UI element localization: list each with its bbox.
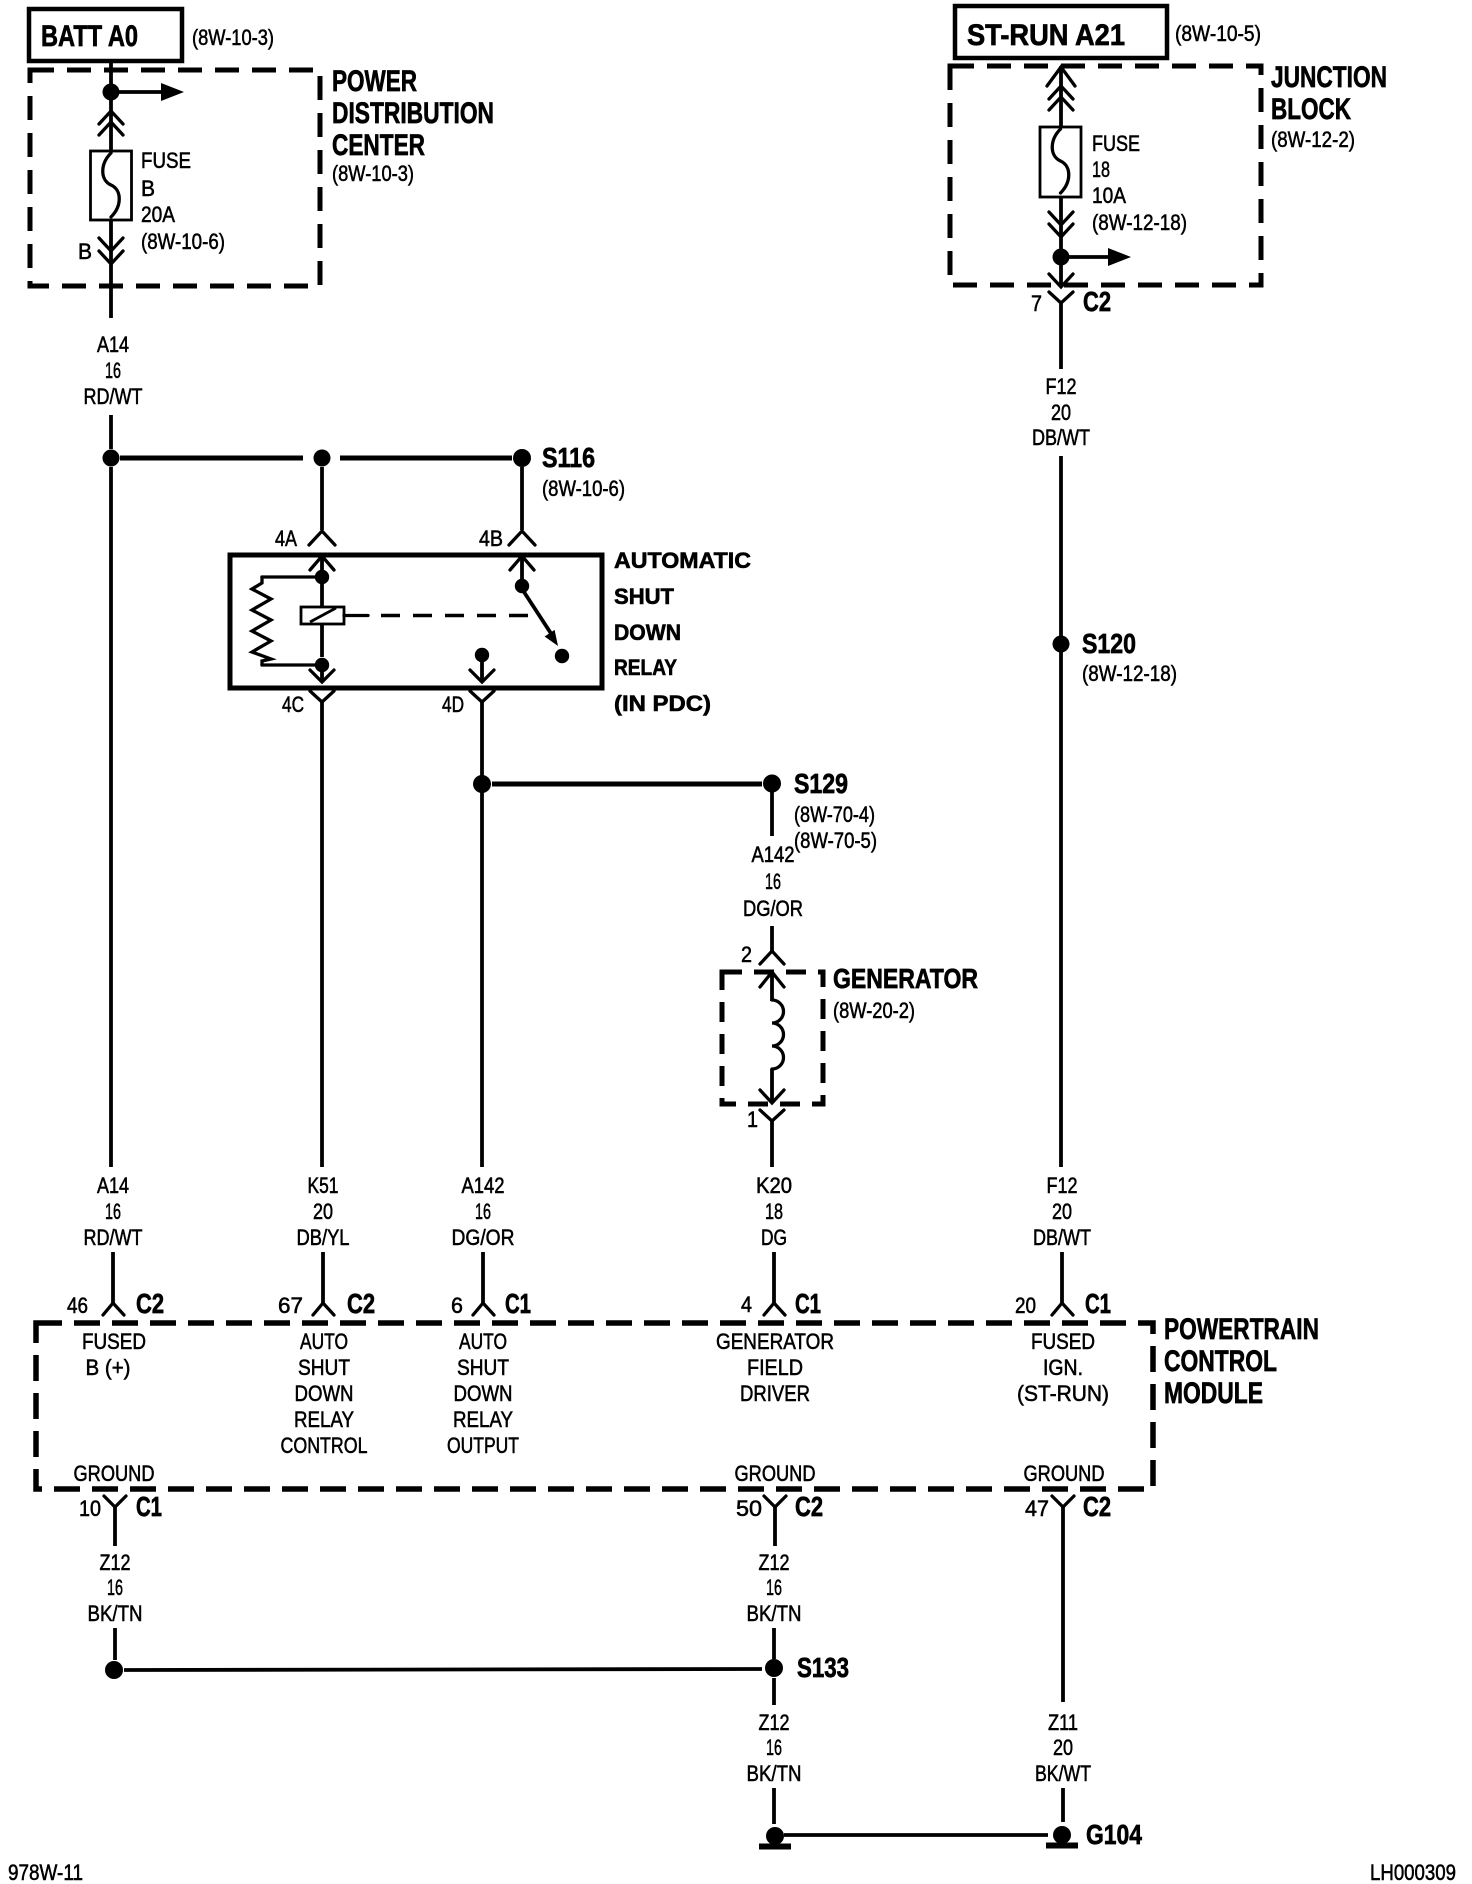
- wire field coil to pin 1: [770, 1069, 774, 1103]
- wire label Z12 16 BK/TN (below S133): [747, 1710, 802, 1786]
- svg-text:DG/OR: DG/OR: [743, 896, 803, 921]
- svg-text:C2: C2: [1083, 286, 1111, 317]
- svg-text:46: 46: [67, 1293, 88, 1318]
- wire label F12 20 DB/WT (upper): [1032, 374, 1090, 450]
- junction dot coil bottom: [315, 658, 329, 672]
- svg-text:SHUT: SHUT: [614, 584, 675, 609]
- wire to resistor top: [262, 575, 322, 578]
- arrow to other circuits: [1061, 248, 1131, 266]
- svg-text:(8W-10-3): (8W-10-3): [192, 25, 274, 50]
- svg-text:CONTROL: CONTROL: [1164, 1345, 1277, 1378]
- wire label F12 20 DB/WT (lower): [1033, 1173, 1091, 1250]
- connector fork pin 6: [473, 1303, 494, 1315]
- svg-text:GROUND: GROUND: [74, 1461, 155, 1486]
- wire to generator pin 2: [770, 926, 774, 951]
- svg-text:BK/TN: BK/TN: [747, 1761, 802, 1786]
- wire S116 bus right segment: [340, 456, 512, 461]
- svg-text:DISTRIBUTION: DISTRIBUTION: [332, 97, 494, 130]
- svg-text:(8W-10-6): (8W-10-6): [542, 476, 625, 501]
- connector fork pin 4: [764, 1303, 785, 1315]
- wire label Z11 20 BK/WT: [1035, 1710, 1091, 1786]
- wire fuse to node: [1059, 197, 1063, 250]
- svg-text:CONTROL: CONTROL: [281, 1433, 368, 1458]
- junction dot middle (to 4A): [314, 450, 331, 467]
- label S120 (8W-12-18): [1082, 628, 1177, 686]
- label POWERTRAIN CONTROL MODULE: [1164, 1313, 1319, 1410]
- fuse B 20A: [91, 151, 132, 220]
- wire pin 47 down long: [1061, 1523, 1065, 1702]
- connector chevron pin 4C inner: [310, 670, 334, 682]
- svg-text:C2: C2: [795, 1491, 823, 1522]
- wire down to G104: [1061, 1788, 1065, 1822]
- ground bar G104: [1046, 1843, 1078, 1849]
- pin function label FUSED B (+): [82, 1329, 146, 1380]
- svg-text:BATT A0: BATT A0: [41, 20, 138, 53]
- svg-text:16: 16: [105, 1199, 121, 1224]
- connector chevrons above fuse: [99, 111, 123, 135]
- svg-text:CENTER: CENTER: [332, 129, 425, 162]
- svg-text:(8W-70-5): (8W-70-5): [794, 828, 877, 853]
- connector fork pin 20: [1052, 1303, 1073, 1315]
- wire label A142 16 DG/OR (lower): [452, 1173, 515, 1250]
- wire col1 into PCM pin 46: [111, 1252, 115, 1304]
- label GENERATOR (8W-20-2): [833, 963, 978, 1023]
- svg-text:FUSED: FUSED: [82, 1329, 146, 1354]
- svg-text:(8W-12-18): (8W-12-18): [1092, 210, 1187, 235]
- svg-text:20: 20: [1052, 1199, 1072, 1224]
- junction dot left of S133 bus: [105, 1661, 123, 1679]
- svg-text:K51: K51: [308, 1173, 339, 1198]
- connector chevron pin 1 inner: [760, 1090, 784, 1103]
- svg-text:ST-RUN A21: ST-RUN A21: [967, 19, 1125, 52]
- svg-text:DB/WT: DB/WT: [1033, 1225, 1091, 1250]
- svg-text:DG/OR: DG/OR: [452, 1225, 515, 1250]
- svg-text:4: 4: [741, 1292, 752, 1317]
- wire S129 bus: [492, 782, 762, 787]
- svg-text:SHUT: SHUT: [298, 1355, 350, 1380]
- svg-text:7: 7: [1031, 291, 1042, 316]
- wire col3 into PCM pin 6: [481, 1252, 485, 1304]
- svg-text:(8W-12-18): (8W-12-18): [1082, 661, 1177, 686]
- node ST-RUN A21 (source box): [955, 6, 1167, 58]
- svg-text:16: 16: [107, 1575, 123, 1600]
- node BATT A0 (source box): [29, 9, 182, 61]
- generator dashed box: [722, 972, 823, 1104]
- svg-text:20: 20: [1051, 400, 1071, 425]
- wire pin2 to field coil: [770, 972, 774, 1001]
- wire col2 into PCM pin 67: [321, 1252, 325, 1304]
- svg-text:C2: C2: [347, 1288, 375, 1319]
- svg-text:DOWN: DOWN: [295, 1381, 354, 1406]
- fuse 18 10A: [1040, 127, 1081, 197]
- wire label K20 18 DG: [756, 1173, 792, 1250]
- svg-text:DOWN: DOWN: [614, 620, 681, 645]
- svg-text:Z12: Z12: [100, 1550, 131, 1575]
- ground G104 dot: [1053, 1826, 1071, 1844]
- svg-text:(IN PDC): (IN PDC): [614, 691, 711, 716]
- svg-text:(8W-70-4): (8W-70-4): [794, 802, 875, 827]
- svg-text:GROUND: GROUND: [735, 1461, 816, 1486]
- svg-text:(8W-10-5): (8W-10-5): [1175, 21, 1261, 46]
- wire 4B to switch pivot: [520, 556, 524, 580]
- svg-text:A14: A14: [97, 1173, 129, 1198]
- connector chevron pin 7 inner: [1049, 274, 1073, 287]
- connector Y pin 50: [764, 1496, 786, 1523]
- svg-text:C2: C2: [136, 1288, 164, 1319]
- switch pivot dot: [515, 579, 529, 593]
- svg-text:10A: 10A: [1092, 183, 1126, 208]
- svg-text:20A: 20A: [141, 202, 175, 227]
- wire 4D contact to pin: [480, 660, 484, 682]
- svg-text:DG: DG: [761, 1225, 787, 1250]
- wire ground bus: [784, 1833, 1048, 1837]
- connector Y pin 7 outer: [1049, 292, 1073, 317]
- svg-text:DB/YL: DB/YL: [297, 1225, 350, 1250]
- svg-text:LH000309: LH000309: [1370, 1860, 1456, 1884]
- wire label K51 20 DB/YL: [297, 1173, 350, 1250]
- svg-text:(8W-10-3): (8W-10-3): [332, 161, 414, 186]
- wire F12 long vertical (col 5): [1059, 652, 1063, 1167]
- svg-text:978W-11: 978W-11: [8, 1860, 83, 1884]
- svg-text:18: 18: [1092, 157, 1110, 182]
- connector fork pin 67: [313, 1303, 334, 1315]
- connector Y pin 4D outer: [470, 691, 494, 713]
- svg-text:OUTPUT: OUTPUT: [447, 1433, 519, 1458]
- splice S116 dot: [513, 449, 531, 467]
- wire S129 to generator: [770, 792, 774, 836]
- wire S116 to relay pin 4A: [320, 467, 324, 530]
- svg-text:FUSE: FUSE: [1092, 131, 1140, 156]
- svg-text:S116: S116: [542, 442, 595, 473]
- svg-text:67: 67: [278, 1293, 303, 1318]
- svg-text:C2: C2: [1083, 1491, 1111, 1522]
- svg-text:Z11: Z11: [1048, 1710, 1078, 1735]
- power distribution center dashed box: [30, 70, 320, 286]
- connector chevron pin 2 inner: [760, 972, 784, 987]
- wire label Z12 16 BK/TN (pin 50): [747, 1550, 802, 1626]
- connector Y pin 10: [104, 1496, 126, 1523]
- connector Y pin 47: [1052, 1496, 1074, 1523]
- wire into S133: [772, 1628, 776, 1659]
- svg-text:16: 16: [766, 1735, 782, 1760]
- svg-text:C1: C1: [136, 1491, 162, 1522]
- svg-text:K20: K20: [756, 1173, 792, 1198]
- arrow to other circuits: [111, 83, 184, 101]
- node junction dot in PDC: [103, 84, 120, 101]
- wire BATT A0 to node: [109, 61, 113, 84]
- wire K20 vertical: [770, 1134, 774, 1167]
- connector Y pin 1 outer: [760, 1110, 784, 1134]
- svg-text:C1: C1: [505, 1288, 531, 1319]
- svg-text:IGN.: IGN.: [1043, 1355, 1083, 1380]
- splice junction dot left: [103, 450, 120, 467]
- label AUTOMATIC SHUT DOWN RELAY (IN PDC): [614, 548, 751, 716]
- svg-text:POWERTRAIN: POWERTRAIN: [1164, 1313, 1319, 1346]
- svg-text:10: 10: [79, 1496, 101, 1521]
- wire pin 50 down: [773, 1523, 777, 1546]
- svg-text:16: 16: [105, 358, 121, 383]
- label JUNCTION BLOCK (8W-12-2): [1271, 61, 1387, 152]
- svg-text:GENERATOR: GENERATOR: [833, 963, 978, 994]
- pin function label GENERATOR FIELD DRIVER: [716, 1329, 834, 1406]
- svg-text:RELAY: RELAY: [453, 1407, 513, 1432]
- wire A142 long vertical (col 3): [480, 713, 484, 1167]
- wire S133 to lower label: [772, 1678, 776, 1705]
- svg-text:16: 16: [475, 1199, 491, 1224]
- label S116 (8W-10-6): [542, 442, 625, 501]
- wire col5 into PCM pin 20: [1060, 1252, 1064, 1304]
- svg-text:G104: G104: [1086, 1819, 1142, 1850]
- svg-text:Z12: Z12: [759, 1710, 790, 1735]
- label POWER DISTRIBUTION CENTER: [332, 65, 494, 186]
- powertrain control module dashed box: [36, 1323, 1153, 1489]
- svg-text:4A: 4A: [275, 526, 297, 551]
- wire fuse to exit: [109, 220, 113, 318]
- svg-text:F12: F12: [1046, 374, 1077, 399]
- svg-text:FIELD: FIELD: [747, 1355, 803, 1380]
- svg-text:4B: 4B: [479, 526, 503, 551]
- svg-text:DRIVER: DRIVER: [740, 1381, 810, 1406]
- svg-text:BK/WT: BK/WT: [1035, 1761, 1091, 1786]
- svg-text:GENERATOR: GENERATOR: [716, 1329, 834, 1354]
- wire col4 into PCM pin 4: [772, 1252, 776, 1304]
- connector chevrons below arrow: [1049, 86, 1073, 110]
- node junction dot in junction block: [1053, 249, 1070, 266]
- svg-text:FUSED: FUSED: [1031, 1329, 1095, 1354]
- wire down to ground bus: [772, 1788, 776, 1824]
- wire node to pin 7: [1059, 265, 1063, 287]
- connector fork pin 46: [103, 1303, 124, 1315]
- svg-text:2: 2: [741, 942, 752, 967]
- svg-text:FUSE: FUSE: [141, 148, 191, 173]
- svg-text:AUTOMATIC: AUTOMATIC: [614, 548, 751, 573]
- svg-text:(8W-12-2): (8W-12-2): [1271, 127, 1355, 152]
- svg-text:F12: F12: [1047, 1173, 1078, 1198]
- arrow into ST-RUN A21: [1047, 66, 1075, 127]
- label FUSE B 20A (8W-10-6): [141, 148, 225, 254]
- connector chevrons below fuse: [1049, 212, 1073, 237]
- svg-text:B: B: [141, 176, 155, 201]
- svg-text:4C: 4C: [282, 692, 304, 717]
- svg-text:DB/WT: DB/WT: [1032, 425, 1090, 450]
- svg-text:RD/WT: RD/WT: [84, 384, 143, 409]
- dashed mechanical link coil to switch: [344, 614, 536, 617]
- relay box (automatic shut down relay): [230, 555, 602, 688]
- connector chevron pin 4A outer: [309, 531, 335, 545]
- switch end contact dot: [555, 649, 569, 663]
- svg-text:C1: C1: [795, 1288, 821, 1319]
- wire coil bottom to pin 4C: [320, 665, 324, 682]
- svg-text:BK/TN: BK/TN: [88, 1601, 143, 1626]
- svg-text:A14: A14: [97, 332, 129, 357]
- wire node to fuse: [109, 100, 113, 151]
- connector chevron pin 2 outer: [760, 951, 784, 964]
- connector chevron pin 4A inner: [310, 556, 334, 570]
- svg-text:47: 47: [1025, 1496, 1049, 1521]
- wire F12 to splice S120: [1059, 456, 1063, 636]
- junction block dashed box: [950, 66, 1261, 285]
- wire 4A to coil top: [320, 556, 324, 657]
- wire S116 bus left segment: [120, 456, 303, 461]
- svg-text:MODULE: MODULE: [1164, 1377, 1263, 1410]
- resistor (relay coil suppression): [252, 577, 271, 665]
- fixed contact dot for 4D: [475, 648, 489, 662]
- svg-text:16: 16: [766, 1575, 782, 1600]
- splice S129 dot: [763, 775, 781, 793]
- wire A14 long vertical (col 1): [109, 467, 113, 1167]
- splice S133 dot: [765, 1659, 783, 1677]
- label S129 (8W-70-4) (8W-70-5): [794, 768, 877, 853]
- svg-text:A142: A142: [462, 1173, 505, 1198]
- connector chevrons below fuse (pin B): [99, 238, 123, 264]
- svg-text:DOWN: DOWN: [454, 1381, 513, 1406]
- svg-text:S120: S120: [1082, 628, 1136, 659]
- pin function label FUSED IGN. (ST-RUN): [1017, 1329, 1109, 1406]
- wire K51 long vertical (col 2): [320, 713, 324, 1167]
- wire A14 to splice S116: [109, 415, 113, 449]
- svg-text:(8W-20-2): (8W-20-2): [833, 998, 915, 1023]
- svg-text:1: 1: [747, 1107, 758, 1132]
- svg-text:GROUND: GROUND: [1024, 1461, 1105, 1486]
- relay coil element: [301, 607, 344, 624]
- svg-text:4D: 4D: [442, 692, 464, 717]
- svg-text:RELAY: RELAY: [614, 655, 677, 680]
- label FUSE 18 10A (8W-12-18): [1092, 131, 1187, 235]
- generator field coil (inductor): [772, 1000, 784, 1069]
- junction dot col3 to S129: [473, 775, 491, 793]
- svg-text:6: 6: [451, 1293, 463, 1318]
- wire resistor bottom: [262, 663, 322, 666]
- wire S133 bus: [124, 1669, 762, 1670]
- wire label A142 16 DG/OR (generator feed): [743, 842, 803, 921]
- svg-text:RELAY: RELAY: [294, 1407, 354, 1432]
- svg-text:(8W-10-6): (8W-10-6): [141, 229, 225, 254]
- wire label Z12 16 BK/TN (pin 10): [88, 1550, 143, 1626]
- svg-text:50: 50: [736, 1496, 762, 1521]
- wire pin 7 down: [1059, 317, 1063, 369]
- junction dot coil top: [315, 570, 329, 584]
- ground bar left: [759, 1844, 791, 1850]
- svg-text:POWER: POWER: [332, 65, 417, 98]
- svg-text:20: 20: [1053, 1735, 1073, 1760]
- svg-text:AUTO: AUTO: [459, 1329, 507, 1354]
- wire pin 10 down: [113, 1523, 117, 1546]
- connector Y pin 4C outer: [310, 691, 334, 713]
- connector chevron pin 4D inner: [470, 670, 494, 682]
- wire S116 to relay pin 4B: [520, 467, 524, 530]
- svg-text:(ST-RUN): (ST-RUN): [1017, 1381, 1109, 1406]
- connector chevron pin 4B inner: [510, 556, 534, 570]
- svg-text:BLOCK: BLOCK: [1271, 93, 1351, 126]
- wire to S133 bus left: [113, 1628, 117, 1660]
- pin function label AUTO SHUT DOWN RELAY CONTROL: [281, 1329, 368, 1458]
- svg-text:B (+): B (+): [86, 1355, 131, 1380]
- connector chevron pin 4B outer: [509, 531, 535, 545]
- svg-text:20: 20: [313, 1199, 333, 1224]
- svg-text:JUNCTION: JUNCTION: [1271, 61, 1387, 94]
- ground terminal dot left: [766, 1827, 784, 1845]
- wire label A14 16 RD/WT (upper): [84, 332, 143, 409]
- svg-text:B: B: [78, 239, 92, 264]
- svg-text:16: 16: [765, 869, 781, 894]
- svg-text:BK/TN: BK/TN: [747, 1601, 802, 1626]
- svg-text:RD/WT: RD/WT: [84, 1225, 143, 1250]
- svg-text:18: 18: [765, 1199, 783, 1224]
- svg-text:AUTO: AUTO: [300, 1329, 348, 1354]
- svg-text:SHUT: SHUT: [457, 1355, 509, 1380]
- svg-text:S133: S133: [797, 1652, 849, 1683]
- svg-text:Z12: Z12: [759, 1550, 790, 1575]
- svg-text:20: 20: [1015, 1293, 1036, 1318]
- splice S120 dot: [1053, 636, 1070, 653]
- wire label A14 16 RD/WT (lower): [84, 1173, 143, 1250]
- svg-text:S129: S129: [794, 768, 848, 799]
- pin function label AUTO SHUT DOWN RELAY OUTPUT: [447, 1329, 519, 1458]
- svg-text:A142: A142: [752, 842, 795, 867]
- relay switch blade with arrow: [524, 592, 558, 646]
- svg-text:C1: C1: [1085, 1288, 1111, 1319]
